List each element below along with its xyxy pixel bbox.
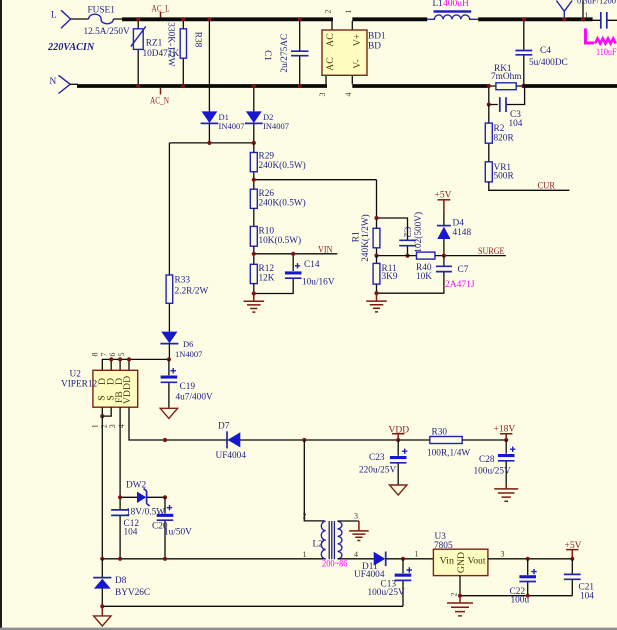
capacitor C19: [161, 359, 213, 407]
svg-text:R30: R30: [432, 428, 448, 438]
power +5V above D4: [435, 191, 452, 201]
svg-text:12.5A/250V: 12.5A/250V: [84, 27, 131, 37]
svg-text:10K(0.5W): 10K(0.5W): [259, 235, 302, 246]
resistor RK1: [489, 64, 524, 90]
capacitor C20: [152, 497, 192, 559]
diode D4: [437, 200, 472, 256]
junction dots bus1 left: [136, 17, 140, 21]
svg-text:3: 3: [108, 424, 117, 428]
svg-text:2A471J: 2A471J: [445, 280, 475, 290]
capacitor C3: [489, 88, 525, 129]
svg-text:104: 104: [124, 527, 138, 537]
wire L to fuse: [71, 18, 89, 20]
capacitor C21: [564, 559, 594, 602]
svg-text:BD1: BD1: [368, 32, 386, 42]
wire FB down: [119, 407, 121, 559]
svg-text:C19: C19: [180, 382, 196, 392]
svg-text:Vout: Vout: [468, 555, 486, 566]
wire to R1 branch: [254, 179, 377, 181]
capacitor C28: [474, 440, 516, 485]
svg-text:DW2: DW2: [126, 480, 146, 490]
svg-text:400uH: 400uH: [443, 0, 469, 9]
ground bars below U3: [447, 596, 473, 616]
wire VDD node row: [396, 438, 400, 442]
ground below R12: [244, 294, 265, 313]
wire V- bus right: [523, 84, 617, 88]
resistor R10: [250, 226, 301, 264]
resistor R40: [416, 252, 435, 282]
svg-text:R1: R1: [352, 231, 362, 242]
svg-text:4148: 4148: [453, 228, 472, 238]
svg-text:2: 2: [99, 424, 108, 428]
svg-text:4: 4: [344, 93, 353, 97]
IC U3 7805: [415, 532, 488, 596]
svg-text:SURGE: SURGE: [478, 247, 505, 257]
capacitor C7: [377, 256, 475, 294]
wire V+ bus left: [352, 17, 427, 21]
svg-text:UF4004: UF4004: [354, 570, 385, 580]
svg-text:BYV26C: BYV26C: [115, 588, 150, 598]
ground triangle below C23: [390, 485, 407, 495]
svg-text:CUR: CUR: [538, 181, 556, 191]
svg-text:8: 8: [91, 353, 100, 357]
svg-text:R26: R26: [259, 189, 275, 199]
capacitor C12: [111, 510, 139, 537]
svg-text:U2: U2: [70, 369, 82, 379]
svg-text:7805: 7805: [434, 541, 453, 551]
svg-text:IN4007: IN4007: [263, 121, 289, 131]
wire AC_N bus: [77, 84, 327, 88]
wire vertical top right: [582, 0, 584, 17]
svg-text:UF4004: UF4004: [216, 451, 247, 461]
ground bars pin3: [349, 521, 369, 541]
scribble magenta 110uF: [586, 29, 617, 58]
ground triangle below D8: [94, 606, 111, 626]
wire Vout row: [488, 558, 572, 560]
capacitor C2: [377, 212, 425, 256]
wire VDD pin4: [129, 407, 430, 440]
svg-text:AC_N: AC_N: [150, 97, 169, 107]
inductor L1: [427, 0, 478, 19]
svg-text:R29: R29: [259, 152, 275, 162]
svg-text:C23: C23: [369, 453, 385, 463]
svg-text:VIPER12: VIPER12: [61, 380, 98, 390]
svg-text:D8: D8: [115, 576, 127, 586]
wire GND row bottom: [460, 595, 572, 597]
svg-text:12K: 12K: [259, 274, 275, 284]
svg-text:102(500V): 102(500V): [413, 212, 424, 253]
wire VIN: [254, 253, 337, 255]
svg-text:R38: R38: [193, 32, 203, 48]
svg-text:10u/16V: 10u/16V: [302, 278, 335, 288]
capacitor C23: [359, 440, 407, 485]
capacitor C13: [368, 559, 413, 607]
svg-text:C7: C7: [458, 265, 469, 275]
svg-text:C2: C2: [402, 227, 412, 238]
svg-text:6: 6: [108, 353, 117, 357]
svg-text:4u7/400V: 4u7/400V: [176, 392, 213, 402]
svg-text:AC: AC: [325, 33, 336, 47]
svg-text:2: 2: [303, 511, 307, 520]
svg-text:100R,1/4W: 100R,1/4W: [427, 448, 470, 458]
svg-text:1: 1: [344, 10, 353, 14]
svg-text:VDDD: VDDD: [122, 376, 133, 404]
wire SURGE row: [377, 255, 506, 257]
svg-text:110uF: 110uF: [596, 48, 617, 58]
net label AC_L: [152, 4, 170, 17]
svg-text:104: 104: [580, 591, 594, 601]
diode D8: [93, 559, 150, 607]
svg-text:D7: D7: [218, 422, 230, 432]
svg-text:820R: 820R: [494, 133, 515, 143]
resistor R30: [427, 428, 506, 459]
svg-text:FUSE1: FUSE1: [88, 5, 116, 15]
svg-text:L1: L1: [433, 0, 444, 9]
capacitor C14: [254, 254, 335, 294]
svg-text:3: 3: [501, 550, 505, 559]
capacitor C5 at edge: [593, 12, 617, 29]
IC U2 VIPER12: [61, 353, 138, 429]
power +18V: [494, 425, 516, 440]
svg-text:1: 1: [415, 549, 419, 558]
wire diode cathodes: [169, 142, 253, 144]
port N: [50, 75, 71, 93]
port Y top right: [556, 1, 572, 18]
capacitor C4: [515, 21, 567, 84]
resistor R38: [165, 21, 202, 84]
svg-text:3: 3: [318, 93, 327, 97]
diode D6: [160, 332, 202, 360]
wire V- bus left: [352, 84, 489, 88]
ground triangle below C19: [160, 408, 177, 418]
svg-text:VIN: VIN: [318, 246, 333, 256]
wire bottom rail: [102, 558, 325, 560]
svg-text:7: 7: [99, 353, 108, 357]
svg-text:200~86: 200~86: [322, 560, 348, 570]
power +5V bottom: [565, 541, 582, 559]
diode D7: [216, 422, 247, 461]
wire U3 GND down: [459, 576, 461, 596]
svg-text:104: 104: [509, 119, 523, 129]
svg-text:2: 2: [324, 10, 333, 14]
frame left border: [0, 0, 2, 630]
svg-text:1N4007: 1N4007: [175, 349, 202, 359]
svg-text:Vin: Vin: [440, 555, 455, 566]
svg-text:220VACIN: 220VACIN: [47, 42, 95, 53]
resistor R12: [250, 264, 274, 293]
diode D11: [354, 552, 433, 581]
svg-text:100u/25V: 100u/25V: [368, 588, 405, 598]
svg-text:4: 4: [354, 550, 358, 559]
svg-text:240K(0.5W): 240K(0.5W): [259, 198, 306, 209]
diode D2: [245, 88, 289, 143]
wire fuse to bus: [113, 18, 123, 20]
wire N to bus: [70, 83, 78, 85]
frame bottom border: [0, 628, 617, 630]
wire U2 pins 1,2 join: [102, 407, 111, 416]
zener DW2: [120, 480, 165, 517]
svg-text:1: 1: [303, 550, 307, 559]
wire CUR: [489, 181, 570, 191]
svg-text:4: 4: [117, 424, 126, 428]
wire U2 top pins: [102, 359, 169, 370]
svg-text:5: 5: [117, 353, 126, 357]
resistor R29: [250, 143, 305, 189]
capacitor C22: [510, 559, 537, 606]
resistor R33: [166, 143, 208, 332]
svg-text:C28: C28: [479, 455, 495, 465]
wire S down: [101, 416, 103, 559]
svg-text:V+: V+: [352, 33, 363, 46]
resistor R1: [352, 180, 380, 262]
svg-text:1u/50V: 1u/50V: [164, 527, 192, 537]
potentiometer VR1: [485, 162, 514, 182]
svg-text:7mOhm: 7mOhm: [491, 72, 522, 82]
svg-text:D4: D4: [453, 218, 465, 228]
bridge rectifier BD1: [318, 10, 386, 97]
svg-text:R10: R10: [259, 226, 275, 236]
svg-text:AC: AC: [325, 57, 336, 71]
svg-text:L: L: [51, 11, 57, 21]
svg-text:500R: 500R: [494, 172, 515, 182]
wire V+ bus right: [478, 17, 592, 21]
svg-text:2: 2: [450, 593, 459, 597]
svg-text:240K(1/2W): 240K(1/2W): [360, 214, 371, 262]
svg-text:N: N: [50, 77, 57, 87]
net label AC_N: [150, 88, 169, 107]
port L: [51, 10, 71, 28]
resistor R26: [250, 189, 305, 226]
svg-text:3: 3: [354, 511, 358, 520]
svg-text:5u/400DC: 5u/400DC: [529, 58, 568, 68]
svg-text:IN4007: IN4007: [219, 121, 245, 131]
transformer L2: [303, 440, 374, 570]
svg-text:V-: V-: [352, 59, 363, 68]
svg-text:2.2R/2W: 2.2R/2W: [175, 287, 209, 297]
svg-text:1: 1: [91, 424, 100, 428]
svg-text:3K9: 3K9: [382, 272, 398, 282]
ground below R11: [366, 293, 387, 312]
svg-text:C4: C4: [540, 46, 551, 56]
svg-text:L2: L2: [313, 539, 324, 549]
svg-text:10K: 10K: [416, 272, 432, 282]
svg-text:220u/25V: 220u/25V: [359, 465, 396, 475]
svg-text:330K-1/2W: 330K-1/2W: [165, 22, 175, 67]
svg-text:BD: BD: [368, 42, 381, 52]
svg-text:R33: R33: [175, 276, 191, 286]
net label VDD: [389, 425, 410, 440]
diode D1: [201, 21, 245, 143]
svg-text:2u/275AC: 2u/275AC: [280, 34, 290, 73]
resistor R2: [485, 105, 514, 162]
svg-text:240K(0.5W): 240K(0.5W): [259, 160, 306, 171]
varistor RZ1: [131, 21, 180, 84]
ground bars below C28: [494, 485, 518, 502]
svg-text:C14: C14: [304, 260, 320, 270]
capacitor C1: [262, 21, 309, 84]
svg-text:D6: D6: [183, 339, 193, 349]
svg-text:RZ1: RZ1: [146, 39, 163, 49]
svg-text:1: 1: [585, 11, 589, 20]
svg-text:GND: GND: [456, 552, 467, 573]
svg-text:100u/25V: 100u/25V: [474, 467, 511, 477]
wire AC_L bus: [122, 17, 333, 21]
wire bottom return: [102, 605, 403, 607]
fuse FUSE1: [84, 5, 131, 37]
resistor R11: [373, 256, 398, 294]
svg-text:C1: C1: [262, 50, 272, 61]
